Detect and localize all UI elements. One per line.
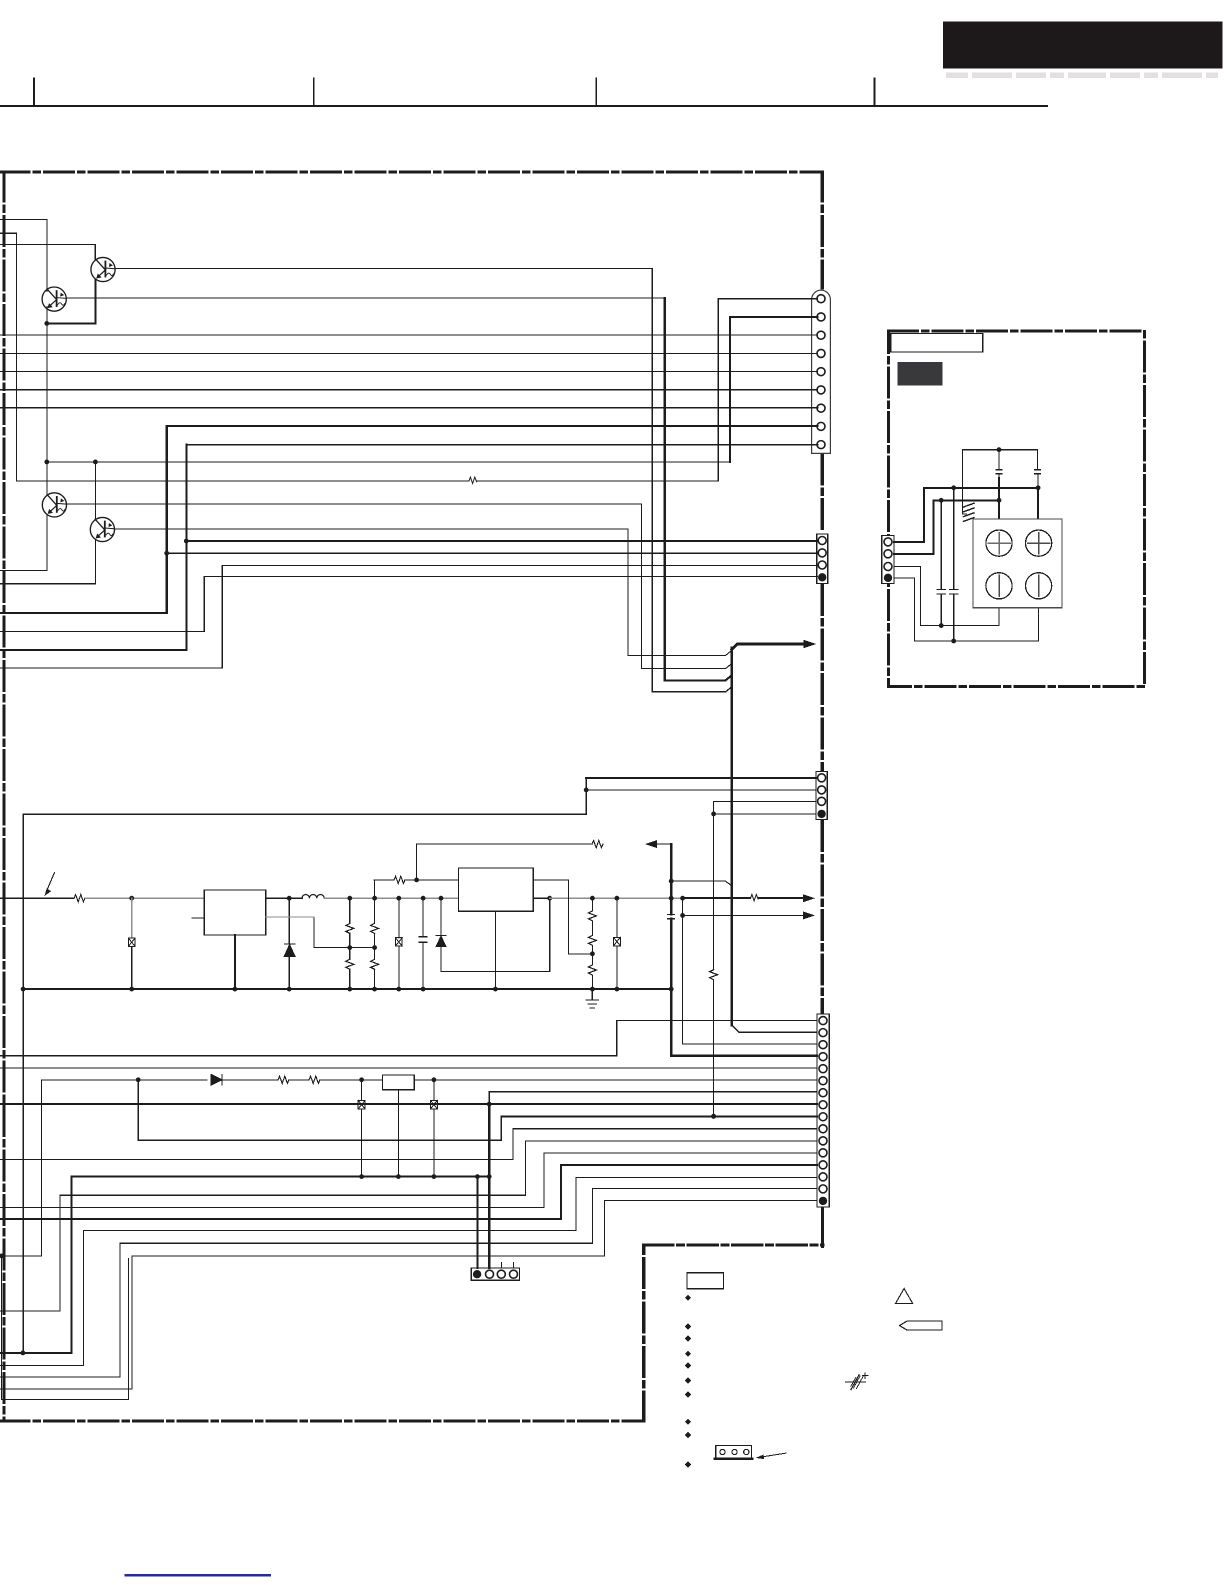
- connector CN4 pin 4: [819, 1053, 827, 1061]
- wire D1 column upper: [288, 898, 290, 944]
- wire to CN4 pin8: [0, 1103, 817, 1105]
- wire net A to Q1: [0, 218, 47, 220]
- node pin6-pin9 branch: [136, 1077, 141, 1082]
- IC U2 ground lead: [494, 911, 496, 989]
- wire to CN1 pin4: [0, 353, 818, 355]
- wire R2 column lower: [131, 946, 133, 989]
- transistor Q3: [42, 493, 66, 517]
- wire rail riser to CN3 pin1: [585, 778, 587, 814]
- relay box K1: [383, 1075, 415, 1090]
- wire pin6 line start: [41, 1080, 43, 1256]
- wire Q3 bottom return: [46, 515, 48, 570]
- wire staircase to CN2 pin3: [0, 667, 222, 669]
- header tick 2: [313, 78, 315, 106]
- node R4 tap: [372, 896, 377, 901]
- connector CN4 pin 5: [819, 1065, 827, 1073]
- wire pin8 drop: [488, 1104, 490, 1268]
- IC U1 ground lead: [234, 935, 236, 989]
- label box: [687, 1273, 723, 1289]
- wire D2 return: [441, 971, 550, 973]
- wire D1 column lower: [288, 957, 290, 990]
- wire supply rail left: [22, 814, 24, 1353]
- connector CN4 pin 3: [819, 1041, 827, 1049]
- wire tee to CN2 pin1: [186, 540, 817, 542]
- wire bundle line4 chamfer: [652, 691, 725, 693]
- node R9 tap: [615, 896, 620, 901]
- connector CN3 pin 3: [818, 797, 826, 805]
- capacitor C5 column: [940, 500, 942, 589]
- title bar text ghost: [946, 73, 968, 79]
- transistor Q2: [91, 257, 115, 281]
- resistor R6: [592, 841, 603, 848]
- connector CN7 pin 1: [720, 1449, 725, 1454]
- node pin6 branch right: [432, 1077, 437, 1082]
- main board boundary bottom edge: [0, 1419, 644, 1422]
- IC U1 (regulator): [204, 890, 266, 935]
- connector CN5 pin 4: [510, 1270, 518, 1278]
- node emitter junction 2: [93, 460, 98, 465]
- wire sense to CN4 pin3: [683, 1043, 817, 1045]
- connector CN6 pin 1: [884, 538, 892, 546]
- connector CN4 pin 10: [819, 1125, 827, 1133]
- wire to CN3 pin4: [714, 813, 816, 815]
- wire SP pin3: [894, 566, 921, 568]
- node C5 bottom: [939, 623, 944, 628]
- node C3 to SP2: [997, 498, 1002, 503]
- node pin8 drop gnd cross: [487, 1174, 492, 1179]
- resistor R3 upper: [349, 898, 351, 923]
- wire Q1 collector to bus: [66, 297, 665, 299]
- wire to CN4 pin13: [0, 1218, 561, 1220]
- resistor R11: [309, 1076, 320, 1083]
- node sense tee: [680, 913, 685, 918]
- connector CN7 body (3-pin): [716, 1446, 752, 1459]
- connector CN1 pin 7: [817, 404, 825, 412]
- connector CN3 pin 2: [818, 786, 826, 794]
- ground GND1: [591, 989, 593, 1000]
- wire SP pin2: [894, 553, 934, 555]
- wire to CN4 pin1: [0, 1055, 617, 1057]
- header rule: [0, 105, 1047, 107]
- connector CN5 pin 3 stub: [500, 1263, 502, 1269]
- wire C3 to speaker TL: [998, 500, 1000, 530]
- wire Q3 collector to bus: [66, 503, 641, 505]
- node gnd bus CN5 drop: [475, 1174, 480, 1179]
- main board boundary notch vertical: [642, 1245, 645, 1421]
- connector CN1 pin 6: [817, 386, 825, 394]
- main board boundary right edge upper: [821, 172, 824, 288]
- main board boundary top edge: [0, 170, 822, 173]
- wire pin6 seg2: [222, 1079, 278, 1081]
- wire net B continued: [477, 480, 719, 482]
- main board boundary right edge seg3: [821, 586, 824, 770]
- resistor R1: [74, 895, 85, 902]
- speaker cap loop top: [962, 449, 1037, 451]
- wire feedback tap vertical: [374, 880, 376, 898]
- node U2 out junction: [547, 896, 552, 901]
- node R8 tap: [590, 896, 595, 901]
- connector CN1 pin 8: [817, 422, 825, 430]
- wire to CN4 pin15: [0, 1376, 120, 1378]
- node emitter junction 1: [44, 460, 49, 465]
- wire U1 output: [266, 897, 302, 899]
- speaker label dark tag: [898, 362, 943, 385]
- resistor R5: [394, 876, 405, 883]
- connector CN4 pin 12: [819, 1149, 827, 1157]
- connector CN5 pin 2: [486, 1270, 494, 1278]
- wire Q2 collector to bus: [115, 268, 652, 270]
- connector CN4 pin 9: [819, 1113, 827, 1121]
- wire feedback riser: [416, 844, 418, 880]
- connector CN5 pin 3: [497, 1270, 505, 1278]
- wire common emitter line: [46, 323, 48, 462]
- connector CN7 pin 3: [744, 1449, 749, 1454]
- wire v1-v2 chamfer link: [671, 880, 725, 882]
- wire Q2 emitter link: [47, 322, 96, 324]
- connector CN4 pin 15: [819, 1185, 827, 1193]
- node rail to gnd bus: [21, 1351, 26, 1356]
- connector CN6 pin 2: [884, 550, 892, 558]
- header tick 3: [595, 78, 597, 106]
- wire sense branch: [682, 898, 684, 1044]
- capacitor C4: [1037, 450, 1039, 470]
- speaker label box: [891, 334, 983, 352]
- connector CN1 pin 3: [817, 331, 825, 339]
- node gnd R2: [129, 987, 134, 992]
- feedback arrow left: [655, 843, 671, 845]
- wire to CN4 pin5: [0, 1067, 817, 1069]
- diode D1: [284, 944, 295, 957]
- wire U2 out: [533, 897, 549, 899]
- wire R3-R4 mid link: [314, 947, 375, 949]
- wire pin6 seg3: [290, 1079, 310, 1081]
- connector CN1 pin 1: [817, 295, 825, 303]
- node pin8 junction: [487, 1102, 492, 1107]
- wire feedback top line: [417, 843, 592, 845]
- title bar (black): [943, 22, 1222, 69]
- resistor R9 (boxed) column: [616, 898, 618, 937]
- wire Q4 bottom return: [94, 540, 96, 584]
- pointer arrow to CN7: [762, 1453, 786, 1457]
- connector CN4 pin 7: [819, 1089, 827, 1097]
- node feedback junction: [414, 878, 419, 883]
- wire junction to Q4: [94, 462, 96, 520]
- wire C4 to speaker TR: [1037, 488, 1039, 530]
- node Q1-Q2 junction: [44, 321, 49, 326]
- wire Q4 collector to bus: [114, 528, 628, 530]
- node C6 top: [951, 485, 956, 490]
- node R12 gnd: [359, 1174, 364, 1179]
- IC U1 left stub: [192, 917, 204, 919]
- node R13 gnd: [432, 1174, 437, 1179]
- connector CN3 pin 1: [818, 774, 826, 782]
- connector CN2 pin 1: [818, 537, 826, 545]
- speaker box SP1: [973, 519, 1062, 608]
- connector CN5 body (4-pin): [471, 1268, 519, 1280]
- connector CN1 body (9-pin): [812, 290, 831, 453]
- wire CN5 pin1 drop: [476, 1177, 478, 1268]
- wire supply rail top: [23, 813, 586, 815]
- wire to CN4 pin16: [0, 1388, 132, 1390]
- speaker terminal + right: [1026, 530, 1052, 556]
- resistor R13 (boxed) column: [433, 1080, 435, 1101]
- wire main vertical v2: [730, 648, 733, 1025]
- ground GND2 (hatched): [964, 503, 975, 521]
- wire v1 lower: [670, 919, 673, 1056]
- wire to CN4 pin11: [0, 1310, 60, 1312]
- resistor R4 upper: [374, 898, 376, 923]
- wire break symbol: [469, 477, 477, 483]
- connector CN3 body (4-pin): [816, 772, 827, 820]
- wire to CN4 pin10: [0, 1158, 513, 1160]
- wire U2 sense line: [533, 879, 568, 881]
- connector CN1 pin 4: [817, 349, 825, 357]
- connector CN4 pin 14: [819, 1173, 827, 1181]
- connector CN2 pin 2: [818, 549, 826, 557]
- connector CN1 pin 2: [817, 313, 825, 321]
- wire SP pin1: [894, 541, 924, 543]
- wire mains input: [0, 897, 74, 899]
- wire to CN4 pin14: [0, 1364, 83, 1366]
- wire v2 top chamfer and arrow: [732, 644, 804, 650]
- node gnd v1: [669, 987, 674, 992]
- node tee CN2 pin2: [164, 551, 169, 556]
- wire CN3 net resistor column: [713, 814, 715, 970]
- warning triangle: [895, 1289, 912, 1304]
- wire net C to Q2: [0, 243, 95, 245]
- main board boundary notch horizontal: [644, 1243, 823, 1246]
- node tee CN2 pin1: [184, 539, 189, 544]
- speaker loop left leg: [961, 450, 963, 514]
- node gnd R9: [615, 987, 620, 992]
- resistor R3 lower: [349, 933, 351, 959]
- wire v2 bottom chamfer to CN4 pin2: [732, 1025, 817, 1032]
- node pin9 tee: [711, 1114, 716, 1119]
- wire R5 to U2: [406, 879, 459, 881]
- main board boundary right edge seg4: [821, 822, 824, 1013]
- wire feedback resistor line: [374, 879, 394, 881]
- resistor R8 stack: [591, 898, 593, 911]
- node gnd U2: [493, 987, 498, 992]
- node gnd R8: [590, 987, 595, 992]
- wire v1 thick: [670, 844, 673, 914]
- node near-edge junction: [0, 1254, 4, 1259]
- node CN3 pin2 tee: [584, 788, 589, 793]
- connector CN1 pin 9: [817, 441, 825, 449]
- resistor R7 (boxed) column: [398, 898, 400, 938]
- node main junction 1: [129, 896, 134, 901]
- wire emitter bus to CN1 pin2: [47, 461, 730, 463]
- wire bundle line2 chamfer: [641, 668, 725, 670]
- connector CN5 pin 4 stub: [513, 1263, 515, 1269]
- main board boundary right edge seg2: [821, 455, 824, 532]
- wire to CN4 pin7: [489, 1091, 817, 1093]
- wire U2 out gray: [550, 897, 683, 899]
- speaker terminal - left: [986, 573, 1012, 599]
- speaker terminal - right: [1026, 573, 1052, 599]
- node gnd R7: [396, 987, 401, 992]
- node v1 chamfer tap: [669, 879, 674, 884]
- node CN3 pin4 tee: [711, 812, 716, 817]
- wire K1 bottom lead: [397, 1090, 399, 1177]
- node gnd R3: [347, 987, 352, 992]
- wire sense arrow: [683, 914, 805, 916]
- wire SP pin4: [894, 577, 914, 579]
- wire bundle line1 chamfer: [628, 654, 726, 656]
- wire R1 to IC1: [86, 897, 205, 899]
- node C1 tap: [421, 896, 426, 901]
- connector CN6 body (4-pin): [882, 536, 894, 584]
- speaker unit boundary: [888, 331, 1144, 686]
- wire tee to CN2 pin2: [167, 552, 818, 554]
- connector CN4 pin 1: [819, 1017, 827, 1025]
- transistor Q4: [90, 517, 114, 541]
- wire bundle line3 chamfer: [665, 679, 726, 681]
- wire net B to CN1 pin1: [17, 480, 469, 482]
- wire to CN4 pin9: [138, 1139, 501, 1141]
- connector CN7 pin 2: [732, 1449, 737, 1454]
- connector CN2 pin 3: [818, 561, 826, 569]
- connector CN2 body (4-pin): [817, 534, 828, 584]
- node diode D1 tap: [287, 896, 292, 901]
- wire pin6 seg5: [414, 1079, 817, 1081]
- node R8 mid: [590, 951, 595, 956]
- node v1 main cross: [669, 896, 674, 901]
- capacitor C2 on v1: [668, 914, 675, 918]
- connector CN1 pin 5: [817, 368, 825, 376]
- resistor R2 (boxed): [128, 938, 135, 946]
- wire staircase to CN1 pin9: [0, 649, 186, 651]
- transistor Q1: [42, 287, 66, 311]
- wire near-edge return: [2, 1255, 42, 1257]
- connector CN6 pin 3: [884, 563, 892, 571]
- node R4 mid: [372, 945, 377, 950]
- node R3 mid: [347, 945, 352, 950]
- node gnd R4: [372, 987, 377, 992]
- node C5 top: [939, 498, 944, 503]
- node main out tap: [680, 896, 685, 901]
- ground bus thick L: [0, 1352, 72, 1354]
- wire staircase to CN2 pin4: [0, 631, 204, 633]
- wire break symbol 2: [751, 894, 759, 900]
- wire L1 to U2: [324, 897, 458, 899]
- thermistor symbol: [846, 1381, 866, 1383]
- wire Q1 emitter down: [46, 307, 48, 324]
- wire to CN1 pin6: [0, 389, 818, 391]
- inductor L1: [302, 894, 324, 898]
- connector CN6 pin 4: [884, 574, 892, 582]
- reference dot column: [685, 1295, 691, 1468]
- adjust pointer arrow: [47, 873, 55, 891]
- node pin6 branch left: [359, 1077, 364, 1082]
- node CN3 net to pin9 line: [711, 1114, 716, 1119]
- wire net B: [0, 232, 17, 234]
- wire staircase to CN1 pin8: [0, 612, 167, 614]
- node D2 tap: [439, 896, 444, 901]
- wire to CN3 pin3: [714, 800, 816, 802]
- diode D2 column: [440, 898, 442, 935]
- connector CN4 pin 6: [819, 1077, 827, 1085]
- node R3 tap: [347, 896, 352, 901]
- node gnd left: [21, 987, 26, 992]
- capacitor C6 column: [953, 488, 955, 590]
- header tick 4: [874, 78, 876, 106]
- wire to CN3 pin2: [586, 789, 816, 791]
- capacitor C1 column: [422, 898, 424, 937]
- capacitor C3: [998, 450, 1000, 470]
- connector CN2 pin 4: [818, 573, 826, 581]
- wire to CN4 pin12: [0, 1206, 544, 1208]
- connector CN3 pin 4: [817, 810, 825, 818]
- wire to CN1 pin3: [0, 334, 818, 336]
- IC U2 (regulator): [459, 868, 534, 911]
- resistor R10: [278, 1076, 289, 1083]
- main board boundary left edge: [2, 172, 5, 1421]
- wire Q3 top: [46, 462, 48, 495]
- node C4 to SP1: [1036, 485, 1041, 490]
- connector CN4 pin 16: [819, 1197, 827, 1205]
- connector CN4 body (16-pin): [817, 1014, 829, 1207]
- wire R2 column upper: [131, 898, 133, 938]
- reference tag (pointed box): [900, 1321, 942, 1330]
- resistor R12 (boxed) column: [361, 1080, 363, 1101]
- connector CN4 pin 13: [819, 1161, 827, 1169]
- header tick 1: [33, 78, 35, 106]
- footer blue rule: [126, 1574, 270, 1576]
- connector CN4 pin 8: [819, 1101, 827, 1109]
- wire main out arrow: [759, 897, 806, 899]
- main board boundary right edge lower solid: [821, 1207, 824, 1246]
- connector CN4 pin 2: [819, 1029, 827, 1037]
- node gnd U1: [233, 987, 238, 992]
- diode D3: [211, 1075, 222, 1086]
- node R7 tap: [396, 896, 401, 901]
- node gnd D1: [287, 987, 292, 992]
- wire power ground bus: [23, 988, 671, 990]
- connector CN5 pin 1: [473, 1270, 481, 1278]
- wire to CN1 pin5: [0, 371, 818, 373]
- speaker terminal + left: [986, 530, 1012, 556]
- wire to CN4 pin6 left: [42, 1079, 207, 1081]
- node K1 gnd: [396, 1174, 401, 1179]
- node C6 bottom: [951, 639, 956, 644]
- wire v1 to CN4 pin4: [671, 1055, 817, 1057]
- wire branch to pin9 line: [137, 1080, 139, 1141]
- resistor R4 lower: [374, 933, 376, 959]
- node cap loop top: [997, 447, 1002, 452]
- wire main out black: [683, 897, 750, 899]
- wire pin6 seg4: [321, 1079, 383, 1081]
- node gnd C1: [421, 987, 426, 992]
- connector CN4 pin 11: [819, 1137, 827, 1145]
- wire to CN1 pin7: [0, 407, 818, 409]
